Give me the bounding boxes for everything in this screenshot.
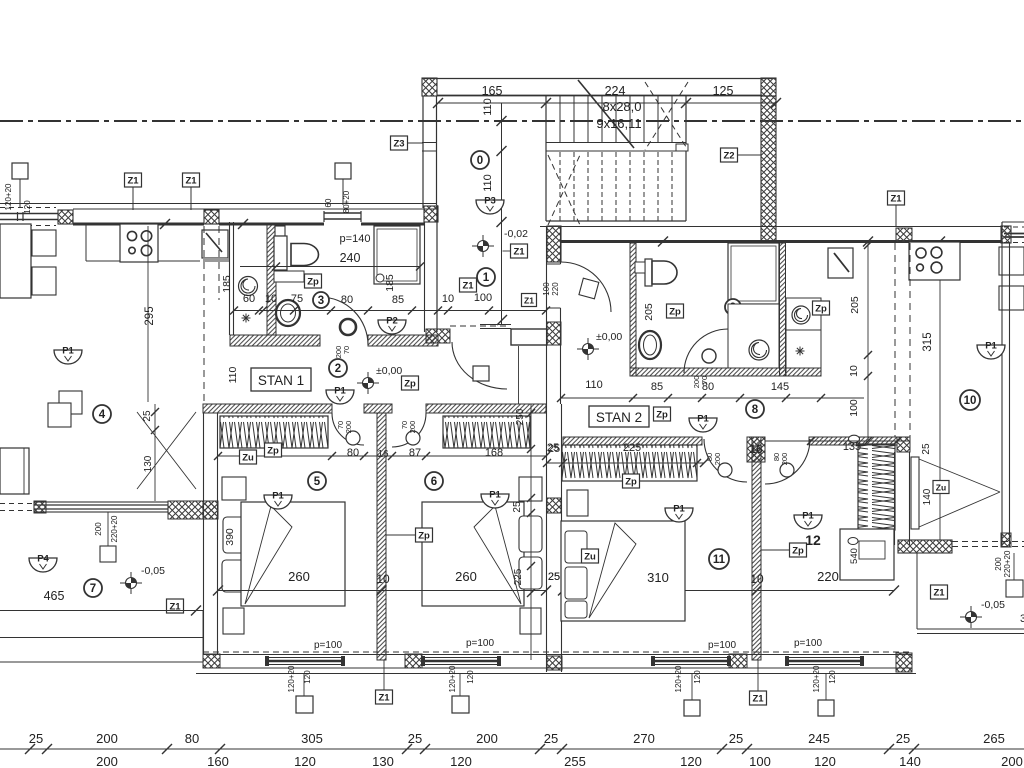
cabinet room12: [840, 529, 894, 580]
stove STAN1: [120, 224, 158, 262]
svg-text:25: 25: [921, 443, 932, 455]
svg-text:P1: P1: [697, 414, 709, 425]
stairwell left wall: [422, 96, 424, 208]
party wall door jambs: [547, 263, 561, 265]
balcony band west: [34, 502, 168, 512]
svg-text:80: 80: [702, 381, 714, 393]
floor symbol P1 bed6: [481, 490, 509, 509]
svg-text:Zp: Zp: [625, 477, 637, 488]
balcony band west pier A: [34, 501, 46, 513]
svg-text:200: 200: [94, 522, 103, 536]
svg-text:Zu: Zu: [242, 453, 254, 464]
benchmark hall2: [357, 372, 379, 394]
svg-text:75: 75: [291, 293, 303, 305]
room number 10: [960, 390, 980, 410]
bed6 pillow A: [519, 516, 542, 552]
svg-text:5: 5: [314, 476, 321, 488]
bedroom north wall STAN1 hatched: [203, 404, 332, 413]
room number 6: [425, 472, 443, 490]
svg-text:p=140: p=140: [340, 233, 371, 245]
svg-text:200: 200: [1001, 754, 1023, 768]
stairwell right wall hatched: [761, 96, 776, 242]
entrance wall white segment east: [511, 329, 547, 345]
stair dashed diagonals top: [645, 82, 688, 150]
bedroom north wall STAN2 hatched: [563, 437, 702, 445]
svg-text:Zp: Zp: [792, 546, 804, 557]
svg-text:140: 140: [899, 754, 921, 768]
svg-text:120+20: 120+20: [287, 665, 296, 692]
window bed6: [424, 657, 498, 659]
north wall thick band left segment: [73, 223, 204, 226]
svg-text:Z1: Z1: [127, 176, 139, 187]
east wall room10: [1001, 243, 1003, 547]
svg-text:P1: P1: [489, 490, 501, 501]
tall cabinet room10: [828, 248, 853, 278]
svg-text:3: 3: [318, 295, 324, 307]
svg-text:200: 200: [780, 453, 789, 466]
partition marker Zp: [416, 528, 433, 542]
bed11 marker Zu: [582, 549, 599, 563]
north wall band right segment: [361, 223, 424, 226]
svg-text:25: 25: [408, 731, 422, 746]
svg-text:Zp: Zp: [404, 379, 416, 390]
svg-text:2: 2: [335, 363, 341, 375]
svg-text:140: 140: [922, 488, 933, 505]
svg-text:10: 10: [376, 572, 390, 586]
counter east A: [999, 247, 1024, 275]
svg-text:8x28,0: 8x28,0: [602, 99, 641, 114]
window top-2 glazing: [324, 212, 361, 214]
toilet STAN1 bowl: [291, 244, 319, 266]
hall2 niche line: [518, 346, 520, 404]
partition marker Zp STAN2: [790, 543, 807, 557]
svg-text:Zu: Zu: [584, 552, 596, 563]
counter east B: [999, 286, 1024, 310]
svg-text:Z1: Z1: [513, 247, 525, 258]
north wall pier hatch east: [897, 437, 910, 452]
svg-text:225: 225: [513, 568, 524, 585]
window marker squares bottom: [296, 696, 313, 713]
north wall right pier east corner: [1001, 226, 1011, 243]
svg-text:110: 110: [482, 98, 494, 116]
svg-text:3: 3: [1020, 613, 1024, 625]
svg-text:Z1: Z1: [933, 588, 945, 599]
svg-text:185: 185: [384, 274, 396, 292]
bath south wall hatched band right: [368, 335, 438, 346]
benchmark STAN2 entry: [577, 338, 599, 360]
svg-text:Z1: Z1: [752, 694, 764, 705]
svg-text:165: 165: [482, 84, 503, 98]
stair cut diagonal: [578, 80, 634, 148]
svg-text:220+20: 220+20: [110, 515, 119, 542]
svg-text:110: 110: [585, 379, 603, 391]
svg-text:80: 80: [347, 447, 359, 459]
svg-text:120: 120: [814, 754, 836, 768]
floor symbol P1 room12: [794, 511, 822, 530]
terrace edge room10: [916, 553, 918, 629]
stair landing handrail block: [676, 144, 688, 151]
shower STAN2: [728, 243, 779, 304]
bed6 nightstand top: [519, 477, 542, 501]
south wall pier hatch 2: [405, 654, 422, 668]
main dimension line bottom: [0, 748, 1024, 750]
svg-text:120+20: 120+20: [448, 665, 457, 692]
sofa living: [0, 448, 29, 494]
wardrobe marker STAN2: [623, 474, 640, 488]
svg-text:120+20: 120+20: [674, 665, 683, 692]
toilet STAN2 bowl: [652, 261, 677, 284]
svg-text:310: 310: [647, 570, 669, 585]
terrace edge lines: [0, 637, 203, 639]
south band room10 hatched: [898, 540, 952, 553]
bedroom width dim line STAN2: [563, 590, 894, 592]
svg-text:Z1: Z1: [462, 281, 474, 292]
bed11 pillows: [567, 490, 588, 516]
svg-text:315: 315: [922, 332, 934, 351]
hall2 marker Zp: [402, 376, 419, 390]
central partition STAN2 hatched: [752, 437, 761, 660]
svg-text:120+20: 120+20: [812, 665, 821, 692]
svg-text:11: 11: [713, 554, 726, 566]
room number 8 hall: [746, 400, 764, 418]
balcony door swing living: [137, 412, 196, 489]
svg-text:-0,02: -0,02: [504, 228, 528, 240]
corridor vertical dim line: [501, 103, 503, 324]
toilet STAN2 cistern: [645, 259, 652, 286]
stairwell top-right corner pier: [761, 78, 776, 96]
north-east window to edge: [1002, 221, 1024, 223]
south wall pier hatch 4: [896, 653, 912, 672]
stair dashed diagonals bottom: [548, 155, 580, 225]
bed 11: [561, 521, 685, 621]
wall marker Z1 left B: [183, 173, 200, 187]
svg-text:120: 120: [693, 670, 702, 684]
svg-text:25: 25: [142, 410, 153, 422]
svg-text:540: 540: [849, 548, 860, 564]
svg-text:10: 10: [442, 293, 454, 305]
svg-text:100: 100: [848, 399, 860, 417]
partition marker Z1 bed11-12: [750, 691, 767, 705]
svg-text:120: 120: [450, 754, 472, 768]
svg-text:Zp: Zp: [815, 304, 827, 315]
bath2 cistern shelf: [635, 262, 645, 273]
svg-text:Z3: Z3: [393, 139, 404, 150]
svg-text:P1: P1: [985, 341, 997, 352]
star symbol bath2: [796, 347, 805, 356]
svg-text:25: 25: [548, 571, 560, 583]
svg-text:P3: P3: [484, 196, 496, 207]
svg-text:85: 85: [392, 294, 404, 306]
south wall pier hatch 1: [203, 654, 220, 668]
terrace marker square room10: [1006, 580, 1023, 597]
corridor marker Z1 A: [511, 244, 528, 258]
svg-text:p=100: p=100: [708, 640, 737, 651]
south wall pier hatch party: [547, 656, 562, 670]
svg-text:110: 110: [227, 366, 239, 383]
wall tick marks north-right: [658, 237, 668, 247]
south wall pier hatch 3: [729, 654, 747, 668]
svg-text:135: 135: [843, 441, 861, 453]
svg-text:4: 4: [99, 409, 106, 421]
wall marker Z2 stair: [721, 148, 738, 162]
north wall right pier at party wall: [547, 226, 561, 262]
party wall upper: [546, 226, 548, 404]
bath2 right lower box: [786, 330, 821, 376]
bath1 door arc: [320, 297, 368, 345]
svg-text:p=100: p=100: [466, 638, 495, 649]
svg-text:224: 224: [605, 84, 626, 98]
entrance STAN1 door opening dashes: [450, 325, 507, 327]
svg-text:1: 1: [483, 272, 490, 284]
shower STAN1: [374, 226, 420, 284]
living room dim 295: [147, 226, 149, 402]
floor symbol P2 bath2: [743, 312, 771, 331]
svg-text:12: 12: [805, 532, 821, 548]
bathroom inner partition hatched: [267, 225, 276, 335]
window marker square top-left: [12, 163, 28, 179]
hall8 vertical dim line: [867, 243, 869, 441]
kitchen zone dashed lines: [203, 226, 205, 402]
svg-text:120: 120: [23, 200, 32, 214]
terrace marker Z1: [167, 599, 184, 613]
svg-text:125: 125: [713, 84, 734, 98]
svg-text:10: 10: [265, 293, 277, 305]
svg-text:P1: P1: [802, 511, 814, 522]
window bed12: [788, 657, 861, 659]
svg-text:80+20: 80+20: [342, 190, 351, 213]
south band dashes to edge: [952, 541, 1024, 543]
svg-text:205: 205: [849, 296, 861, 314]
washbasin STAN2: [639, 331, 661, 359]
svg-text:200: 200: [476, 731, 498, 746]
chair B: [32, 267, 56, 295]
toilet STAN1 cistern: [274, 236, 287, 270]
stair flight risers lower: [545, 152, 547, 221]
entrance threshold lines: [480, 324, 511, 326]
bed6 pillow B: [519, 557, 542, 589]
svg-text:-0,05: -0,05: [981, 599, 1005, 611]
center pier STAN2 doors: [747, 437, 765, 462]
svg-text:Zp: Zp: [267, 446, 279, 457]
room12 door arc: [765, 439, 810, 484]
benchmark terrace right: [960, 606, 982, 628]
entrance STAN1 door arc: [452, 342, 507, 389]
svg-text:120: 120: [466, 670, 475, 684]
stair side edges: [545, 96, 547, 221]
north wall pier hatch C: [424, 206, 438, 222]
site boundary dash-dot line: [0, 120, 1024, 122]
floor symbol P1 room10: [977, 341, 1005, 360]
svg-text:25: 25: [544, 731, 558, 746]
bedroom dim 135 line STAN2: [765, 440, 910, 442]
bed5 pillow A: [223, 517, 246, 553]
party wall hatch at entrance: [547, 322, 561, 345]
east wall bottom pier: [1001, 533, 1011, 547]
stove STAN2: [909, 242, 960, 280]
stairwell top wall: [422, 78, 776, 80]
floor symbol P4 terrace: [29, 554, 57, 573]
north wall pier hatch B: [204, 210, 219, 224]
wardrobe markers STAN1: [240, 450, 257, 464]
wall marker Z3 stair: [391, 136, 408, 150]
svg-text:200: 200: [344, 421, 353, 434]
room12 east wall: [894, 452, 896, 545]
bathroom west wall: [229, 222, 231, 335]
svg-text:6: 6: [431, 476, 437, 488]
entrance west pier hatch: [426, 329, 450, 343]
floor symbol P1 bed5: [264, 491, 292, 510]
balcony door swing room12: [919, 459, 1000, 492]
svg-text:265: 265: [983, 731, 1005, 746]
bed6 nightstand bottom: [520, 608, 541, 634]
kitchen dim line 315: [939, 280, 941, 540]
svg-text:220: 220: [817, 569, 839, 584]
svg-text:P2: P2: [386, 316, 398, 327]
north wall band mid segment: [219, 223, 324, 226]
floor symbol P2 bath1: [378, 316, 406, 335]
bedroom6 dim line: [530, 404, 532, 660]
svg-text:Zp: Zp: [669, 307, 681, 318]
bedroom dim chain STAN2: [547, 462, 704, 464]
room number 5: [308, 472, 326, 490]
bed5 nightstand top: [222, 477, 246, 500]
partition marker Z1 bed5-6: [376, 690, 393, 704]
wall tick marks north wall: [160, 219, 170, 229]
stairwell top-left corner pier: [422, 78, 437, 96]
svg-text:P4: P4: [37, 554, 49, 565]
north wall right part lines: [540, 226, 1003, 228]
svg-text:255: 255: [564, 754, 586, 768]
svg-text:25: 25: [512, 501, 523, 513]
bath1 low shelf: [274, 271, 304, 282]
svg-text:Zp: Zp: [656, 410, 668, 421]
bedroom width dim line STAN1: [218, 590, 546, 592]
svg-text:205: 205: [643, 303, 655, 321]
svg-text:9x16,11: 9x16,11: [596, 116, 641, 131]
svg-text:Z1: Z1: [378, 693, 390, 704]
svg-text:260: 260: [288, 569, 310, 584]
svg-text:60: 60: [324, 198, 333, 207]
north wall outer lines left part: [0, 203, 437, 205]
corridor marker Z1 C: [522, 294, 537, 307]
party wall hatch mid: [547, 498, 561, 513]
svg-text:25: 25: [29, 731, 43, 746]
svg-text:Zu: Zu: [936, 483, 946, 493]
corridor vertical dim line right: [497, 315, 507, 325]
svg-text:P1: P1: [272, 491, 284, 502]
balcony door leaf room12: [911, 457, 919, 529]
svg-text:Z1: Z1: [890, 194, 902, 205]
benchmark -0,02: [472, 235, 494, 257]
terrace marker Z1 room10: [931, 585, 948, 599]
party wall bedrooms: [546, 404, 548, 672]
window bed5: [268, 657, 342, 659]
bath2 closet spiral: [792, 306, 810, 324]
bed 5: [241, 502, 345, 606]
svg-text:25: 25: [547, 442, 559, 454]
bedroom5 west wall: [203, 413, 205, 654]
window bed11: [654, 657, 728, 659]
svg-text:P1: P1: [62, 346, 74, 357]
bath2 west wall hatched: [630, 243, 636, 376]
benchmark terrace left: [120, 572, 142, 594]
coffee table squares: [59, 391, 82, 414]
balcony band dashes to edge: [0, 503, 34, 505]
svg-text:120: 120: [294, 754, 316, 768]
svg-text:295: 295: [144, 306, 156, 325]
bath2 lower box: [728, 304, 779, 368]
bath2 partition hatched: [780, 243, 786, 376]
central partition STAN1 hatched: [377, 413, 386, 660]
svg-text:145: 145: [771, 381, 789, 393]
bed6 door arc: [392, 413, 426, 447]
hall8 marker Zp: [654, 407, 671, 421]
svg-text:220: 220: [551, 282, 560, 296]
svg-text:80: 80: [341, 294, 353, 306]
svg-text:100: 100: [749, 754, 771, 768]
wardrobe room12 vertical: [858, 444, 895, 530]
bath2 door arc: [684, 329, 728, 373]
svg-text:200: 200: [96, 754, 118, 768]
svg-text:Z1: Z1: [185, 176, 197, 187]
svg-text:±0,00: ±0,00: [596, 331, 622, 343]
room number 0 stair: [471, 151, 489, 169]
svg-text:465: 465: [44, 589, 65, 603]
washbasin STAN1: [276, 300, 300, 326]
svg-text:±0,00: ±0,00: [376, 365, 402, 377]
kitchen counter STAN1: [85, 224, 87, 261]
room number 9 bath2: [725, 299, 741, 315]
bed5 door arc: [332, 413, 364, 445]
svg-text:200: 200: [96, 731, 118, 746]
svg-text:390: 390: [224, 528, 236, 546]
svg-text:200: 200: [408, 421, 417, 434]
svg-text:185: 185: [221, 275, 233, 293]
floor symbol P1 bed11: [665, 504, 693, 523]
window top-left glazing: [0, 213, 58, 215]
svg-text:60: 60: [243, 293, 255, 305]
svg-text:p=100: p=100: [314, 640, 343, 651]
svg-text:70: 70: [342, 346, 351, 354]
dining table STAN1: [0, 224, 31, 298]
svg-text:120: 120: [680, 754, 702, 768]
stair flight risers upper: [545, 96, 547, 142]
svg-text:80: 80: [185, 731, 199, 746]
svg-text:25: 25: [729, 731, 743, 746]
svg-text:220+20: 220+20: [1003, 550, 1012, 577]
svg-text:7: 7: [90, 583, 96, 595]
terrace dim line: [0, 610, 203, 612]
svg-text:110: 110: [482, 174, 494, 192]
south wall band: [203, 654, 912, 656]
svg-text:160: 160: [207, 754, 229, 768]
fridge STAN1: [202, 230, 228, 258]
room number 1 corridor: [477, 268, 495, 286]
bed 6: [422, 502, 524, 606]
stair dimension line: [438, 102, 776, 104]
svg-text:P1: P1: [673, 504, 685, 515]
svg-text:8: 8: [752, 404, 759, 416]
hall8 dim chain: [561, 397, 864, 399]
wall marker Z1 left A: [125, 173, 142, 187]
svg-text:120+20: 120+20: [4, 183, 13, 210]
washing machine spiral bath1: [239, 277, 258, 296]
bath2 right upper box: [786, 298, 821, 330]
svg-text:85: 85: [651, 381, 663, 393]
svg-text:168: 168: [485, 447, 503, 459]
kitchen dashed zone lines STAN2: [894, 243, 896, 437]
svg-text:P1: P1: [334, 386, 346, 397]
